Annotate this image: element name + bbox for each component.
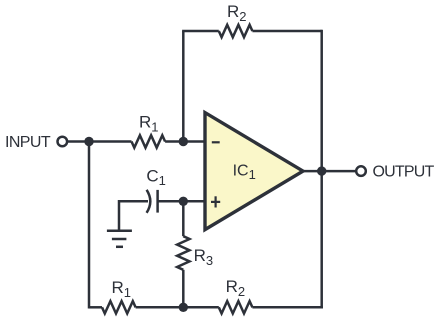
node at bottom R1/R2/R3 junction (179, 303, 188, 312)
op-amp inverting input minus sign (212, 141, 220, 143)
wire from ground corner to capacitor C1 left plate (119, 201, 148, 230)
node at input branch (84, 137, 93, 146)
capacitor C1 curved plate (147, 190, 151, 213)
node at output branch (317, 166, 326, 175)
wire left vertical from input node to bottom wire (88, 142, 91, 309)
svg-text:INPUT: INPUT (5, 134, 51, 151)
wire input horizontal from terminal to R1 (68, 140, 132, 143)
ground symbol (107, 231, 132, 247)
op-amp non-inverting input plus sign (211, 196, 220, 207)
wire op-amp output to output terminal (303, 170, 355, 173)
wire from R3 down to bottom node (182, 270, 185, 308)
wire from non-inverting node down to R3 (182, 201, 185, 236)
resistor R1 (bottom left) (102, 301, 136, 313)
resistor R3 (vertical) (177, 236, 189, 270)
wire bottom horizontal middle segment (136, 306, 219, 309)
wire top-left vertical from inverting node to feedback loop (182, 31, 185, 142)
wire top horizontal left of R2 (182, 30, 219, 33)
svg-text:OUTPUT: OUTPUT (373, 163, 435, 180)
wire right vertical from top wire through output node to bottom wire (320, 30, 323, 309)
capacitor C1 straight plate (156, 190, 159, 213)
node at inverting input / feedback (179, 137, 188, 146)
input terminal circle (58, 137, 68, 147)
resistor R2 (top feedback) (219, 25, 253, 37)
resistor R1 (top, series input) (132, 135, 166, 147)
wire bottom horizontal left segment (89, 306, 102, 309)
op-amp IC1 triangle (205, 113, 303, 230)
wire bottom horizontal right segment (252, 306, 323, 309)
output terminal circle (356, 166, 366, 176)
wire from R1 to op-amp inverting input (165, 140, 205, 143)
wire from capacitor C1 right plate to op-amp non-inverting input (158, 200, 205, 203)
node at non-inverting input / C1 / R3 (179, 197, 188, 206)
resistor R2 (bottom right) (219, 301, 253, 313)
wire top horizontal right of R2 (252, 30, 321, 33)
